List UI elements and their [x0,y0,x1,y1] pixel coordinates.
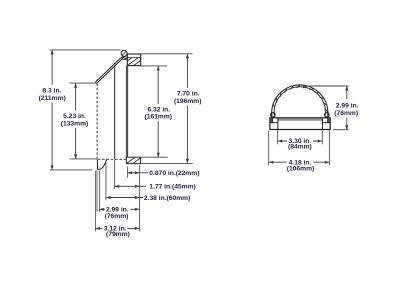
dimension 2.99 in right vertical [346,87,348,130]
dimension 2.99 in horizontal [100,206,140,213]
dimension 3.12 in horizontal [96,225,140,232]
dome band hatch ticks [273,85,328,113]
dimension 7.70 in vertical [186,54,188,163]
svg-text:(161mm): (161mm) [145,114,173,121]
svg-text:(76mm): (76mm) [105,213,129,220]
svg-text:(84mm): (84mm) [288,144,312,151]
svg-text:7.70 in.: 7.70 in. [177,91,200,98]
svg-text:2.99 in.: 2.99 in. [336,103,359,110]
svg-text:(106mm): (106mm) [287,165,315,172]
extension line bottom flange bottom right (7.70 bottom) [141,162,193,164]
right figure bottom extension verticals [269,130,330,165]
dimension 4.18 in horizontal [269,159,330,166]
right strap loop [325,113,329,117]
dimension 8.3 in vertical [51,50,53,169]
svg-text:0.870 in.(22mm): 0.870 in.(22mm) [149,170,199,177]
left strap loop [271,113,275,117]
bottom-left boss with fillet [97,160,106,170]
dimension 5.23 in vertical [75,84,77,159]
hidden bottom edge dashed horizontal [98,158,127,160]
flange section rectangle [127,54,140,66]
bar bottom extension line (2.99 bottom) [333,129,349,131]
bottom extension verticals [95,160,139,232]
extension line flange bottom right (6.32 top) [141,65,167,67]
dimension 1.77 in horizontal [115,185,146,188]
flange inner line [127,57,140,59]
extension line flange top right (7.70 top) [141,53,193,55]
right block [322,118,330,130]
extension line bottom flange top right (6.32 bottom) [141,156,168,158]
right figure dome inner arc [274,87,325,116]
svg-text:(79mm): (79mm) [106,231,130,238]
rim weld section blob [122,57,127,61]
dimension 3.30 in horizontal [278,137,323,144]
left block [270,118,278,130]
dimension 6.32 in vertical [157,66,159,156]
svg-text:(211mm): (211mm) [39,95,66,102]
flange hatch [128,58,141,65]
horn rim circle [121,50,127,56]
svg-text:(76mm): (76mm) [334,110,358,117]
bar gray band [278,119,322,121]
right figure dome outer arc [272,85,328,116]
waveguide tube thick vertical [126,66,128,158]
hidden cone edge dashed vertical [96,84,98,160]
horn mouth top extension line [50,49,121,51]
bottom flange hatched rectangle [126,157,140,163]
clamp bar rectangle [270,118,330,130]
horn cone slant double line [95,57,123,83]
svg-text:1.77 in.(45mm): 1.77 in.(45mm) [149,184,195,191]
extension line left (5.23 bottom) [69,158,97,160]
dome top extension line (2.99 top) [303,85,349,87]
svg-text:8.3 in.: 8.3 in. [43,87,62,94]
svg-text:(196mm): (196mm) [174,98,202,105]
extension line bottom left (8.3 bottom) [50,169,92,171]
svg-text:5.23 in.: 5.23 in. [63,113,86,120]
cone corner extension line (5.23 top) [69,82,96,84]
dimension 2.38 in horizontal [106,196,143,199]
svg-text:6.32 in.: 6.32 in. [147,106,170,113]
svg-text:(133mm): (133mm) [61,121,89,128]
inner wall vertical [114,65,116,159]
svg-text:2.38 in.(60mm): 2.38 in.(60mm) [144,195,190,202]
dimension 0.870 in horizontal [128,171,148,174]
